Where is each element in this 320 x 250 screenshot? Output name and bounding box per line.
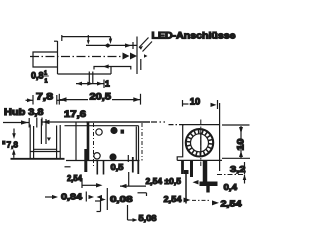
svg-text:2,54: 2,54 bbox=[164, 194, 182, 204]
svg-text:1: 1 bbox=[105, 79, 110, 89]
svg-text:0,4: 0,4 bbox=[224, 182, 238, 192]
svg-text:2,54: 2,54 bbox=[67, 174, 83, 183]
svg-text:LED-Anschlüsse: LED-Anschlüsse bbox=[152, 30, 236, 41]
svg-text:7,8: 7,8 bbox=[36, 91, 53, 101]
svg-text:10: 10 bbox=[236, 139, 246, 151]
svg-text:0,8: 0,8 bbox=[31, 71, 44, 81]
svg-text:7,8: 7,8 bbox=[7, 140, 19, 150]
svg-text:1: 1 bbox=[45, 79, 48, 85]
svg-text:3,2: 3,2 bbox=[230, 164, 246, 174]
svg-text:10: 10 bbox=[190, 97, 201, 107]
svg-text:17,6: 17,6 bbox=[64, 109, 86, 119]
svg-text:Hub 3,8: Hub 3,8 bbox=[4, 107, 44, 117]
svg-text:2,54 ±0,5: 2,54 ±0,5 bbox=[146, 176, 182, 186]
svg-text:2,54: 2,54 bbox=[221, 198, 242, 208]
svg-text:0,5: 0,5 bbox=[111, 163, 125, 172]
svg-text:0,84: 0,84 bbox=[61, 191, 82, 201]
svg-text:20,5: 20,5 bbox=[90, 91, 112, 101]
svg-text:5,08: 5,08 bbox=[139, 213, 157, 223]
svg-text:0,08: 0,08 bbox=[110, 194, 133, 204]
